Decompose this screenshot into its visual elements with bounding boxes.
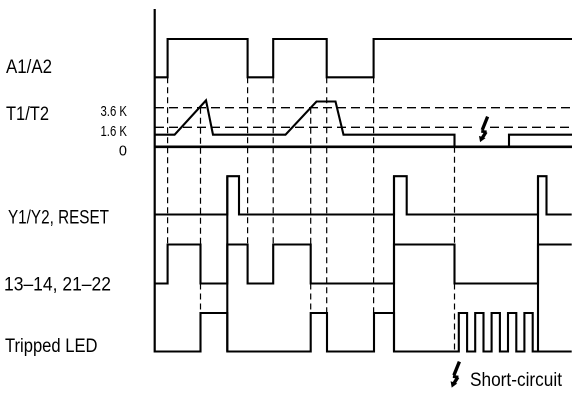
- event line reset 1: [226, 176, 228, 351]
- svg-text:3.6 K: 3.6 K: [101, 104, 128, 120]
- wave Y1/Y2 RESET: [155, 176, 572, 214]
- dashed event line A1 on 2: [272, 77, 274, 244]
- lightning bolt at Short-circuit caption: [451, 362, 460, 388]
- dashed event line short-circuit lower: [454, 284, 456, 352]
- dashed event line at A1 on 1: [167, 77, 169, 244]
- dashed event line trip 2 upper: [310, 108, 312, 245]
- dashed event line A1 off 2: [326, 77, 328, 313]
- axis vertical line: [154, 9, 156, 353]
- dashed level line 3.6K: [155, 107, 572, 109]
- dashed event line trip 1 upper: [200, 108, 202, 245]
- wave A1/A2: [155, 39, 572, 77]
- dashed event line trip 2 lower: [310, 284, 312, 314]
- lightning bolt at T1/T2 short-circuit: [479, 117, 488, 142]
- svg-text:Y1/Y2, RESET: Y1/Y2, RESET: [8, 208, 109, 229]
- svg-text:Tripped LED: Tripped LED: [5, 336, 98, 357]
- dashed event line short-circuit upper: [454, 147, 456, 245]
- event line reset 3: [537, 176, 539, 351]
- svg-text:0: 0: [119, 144, 127, 160]
- event line reset 2: [393, 176, 395, 351]
- dashed event line A1 on 3: [373, 77, 375, 313]
- svg-text:1.6 K: 1.6 K: [101, 124, 128, 140]
- wave T1/T2 right part after short-circuit: [509, 135, 572, 147]
- wave Tripped LED: [155, 313, 572, 352]
- dashed level line 1.6K left of bolt: [155, 126, 474, 128]
- svg-text:A1/A2: A1/A2: [6, 57, 52, 78]
- zero level line: [155, 146, 572, 149]
- svg-text:13–14, 21–22: 13–14, 21–22: [4, 275, 111, 296]
- svg-text:Short-circuit: Short-circuit: [470, 370, 563, 391]
- dashed event line A1 off 1: [247, 77, 249, 244]
- svg-text:T1/T2: T1/T2: [6, 104, 49, 125]
- wave 13-14 21-22: [155, 245, 572, 284]
- dashed level line 1.6K right of bolt: [490, 126, 572, 128]
- dashed event line trip 1 lower: [200, 284, 202, 314]
- wave T1/T2 left part with ramps: [155, 100, 455, 146]
